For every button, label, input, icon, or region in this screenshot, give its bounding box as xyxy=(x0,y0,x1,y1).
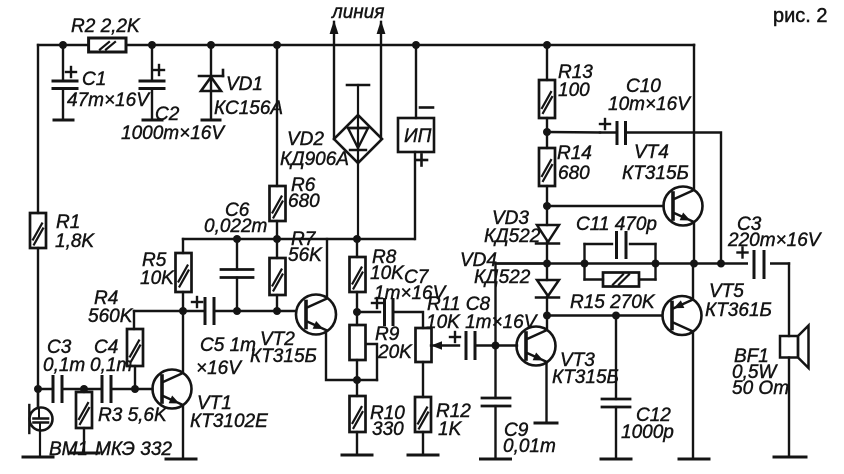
svg-text:56K: 56K xyxy=(288,245,323,266)
svg-text:линия: линия xyxy=(331,2,384,23)
svg-text:C5 1m: C5 1m xyxy=(200,335,256,356)
svg-text:ИП: ИП xyxy=(404,126,432,147)
svg-text:50 Om: 50 Om xyxy=(732,378,789,399)
svg-text:КД522: КД522 xyxy=(474,267,531,288)
svg-text:КД906А: КД906А xyxy=(280,149,349,170)
svg-text:20K: 20K xyxy=(377,342,413,363)
svg-text:КС156А: КС156А xyxy=(214,98,283,119)
svg-text:МКЭ 332: МКЭ 332 xyxy=(95,439,172,460)
svg-text:100: 100 xyxy=(558,80,590,101)
svg-text:0,01m: 0,01m xyxy=(503,436,556,457)
svg-text:680: 680 xyxy=(558,163,590,184)
svg-text:680: 680 xyxy=(288,191,320,212)
svg-text:R14: R14 xyxy=(557,143,592,164)
svg-text:ВМ1: ВМ1 xyxy=(49,439,88,460)
svg-text:R1: R1 xyxy=(56,212,80,233)
svg-text:КТ361Б: КТ361Б xyxy=(705,300,772,321)
svg-text:КТ315Б: КТ315Б xyxy=(622,163,689,184)
svg-text:×16V: ×16V xyxy=(196,358,243,379)
svg-text:C2: C2 xyxy=(155,104,180,125)
svg-text:КТ315Б: КТ315Б xyxy=(250,346,317,367)
svg-text:10K 1m×16V: 10K 1m×16V xyxy=(426,312,539,333)
svg-text:КД522: КД522 xyxy=(484,226,541,247)
svg-text:0,022m: 0,022m xyxy=(204,216,267,237)
svg-text:1,8K: 1,8K xyxy=(55,231,95,252)
svg-text:220m×16V: 220m×16V xyxy=(727,230,823,251)
svg-text:10K: 10K xyxy=(140,268,175,289)
svg-text:0,1m: 0,1m xyxy=(43,355,85,376)
svg-text:VD2: VD2 xyxy=(287,129,324,150)
svg-text:R3 5,6K: R3 5,6K xyxy=(98,405,168,426)
svg-text:330: 330 xyxy=(372,419,404,440)
svg-text:560K: 560K xyxy=(88,306,134,327)
svg-text:VT5: VT5 xyxy=(709,281,744,302)
svg-text:1K: 1K xyxy=(438,419,463,440)
svg-text:1000p: 1000p xyxy=(621,422,674,443)
svg-text:R15 270K: R15 270K xyxy=(570,292,656,313)
svg-text:C1: C1 xyxy=(82,69,106,90)
svg-text:R2 2,2K: R2 2,2K xyxy=(71,16,141,37)
svg-text:VD1: VD1 xyxy=(226,74,263,95)
svg-text:1000m×16V: 1000m×16V xyxy=(121,123,226,144)
svg-text:C11 470p: C11 470p xyxy=(576,214,657,235)
svg-text:рис. 2: рис. 2 xyxy=(773,5,828,27)
svg-text:КТ3102Е: КТ3102Е xyxy=(190,411,268,432)
svg-text:47m×16V: 47m×16V xyxy=(67,90,151,111)
svg-text:КТ315Б: КТ315Б xyxy=(552,367,619,388)
svg-text:10m×16V: 10m×16V xyxy=(608,94,692,115)
svg-text:0,1m: 0,1m xyxy=(90,355,132,376)
svg-text:10K: 10K xyxy=(370,263,405,284)
svg-text:VT4: VT4 xyxy=(634,142,669,163)
